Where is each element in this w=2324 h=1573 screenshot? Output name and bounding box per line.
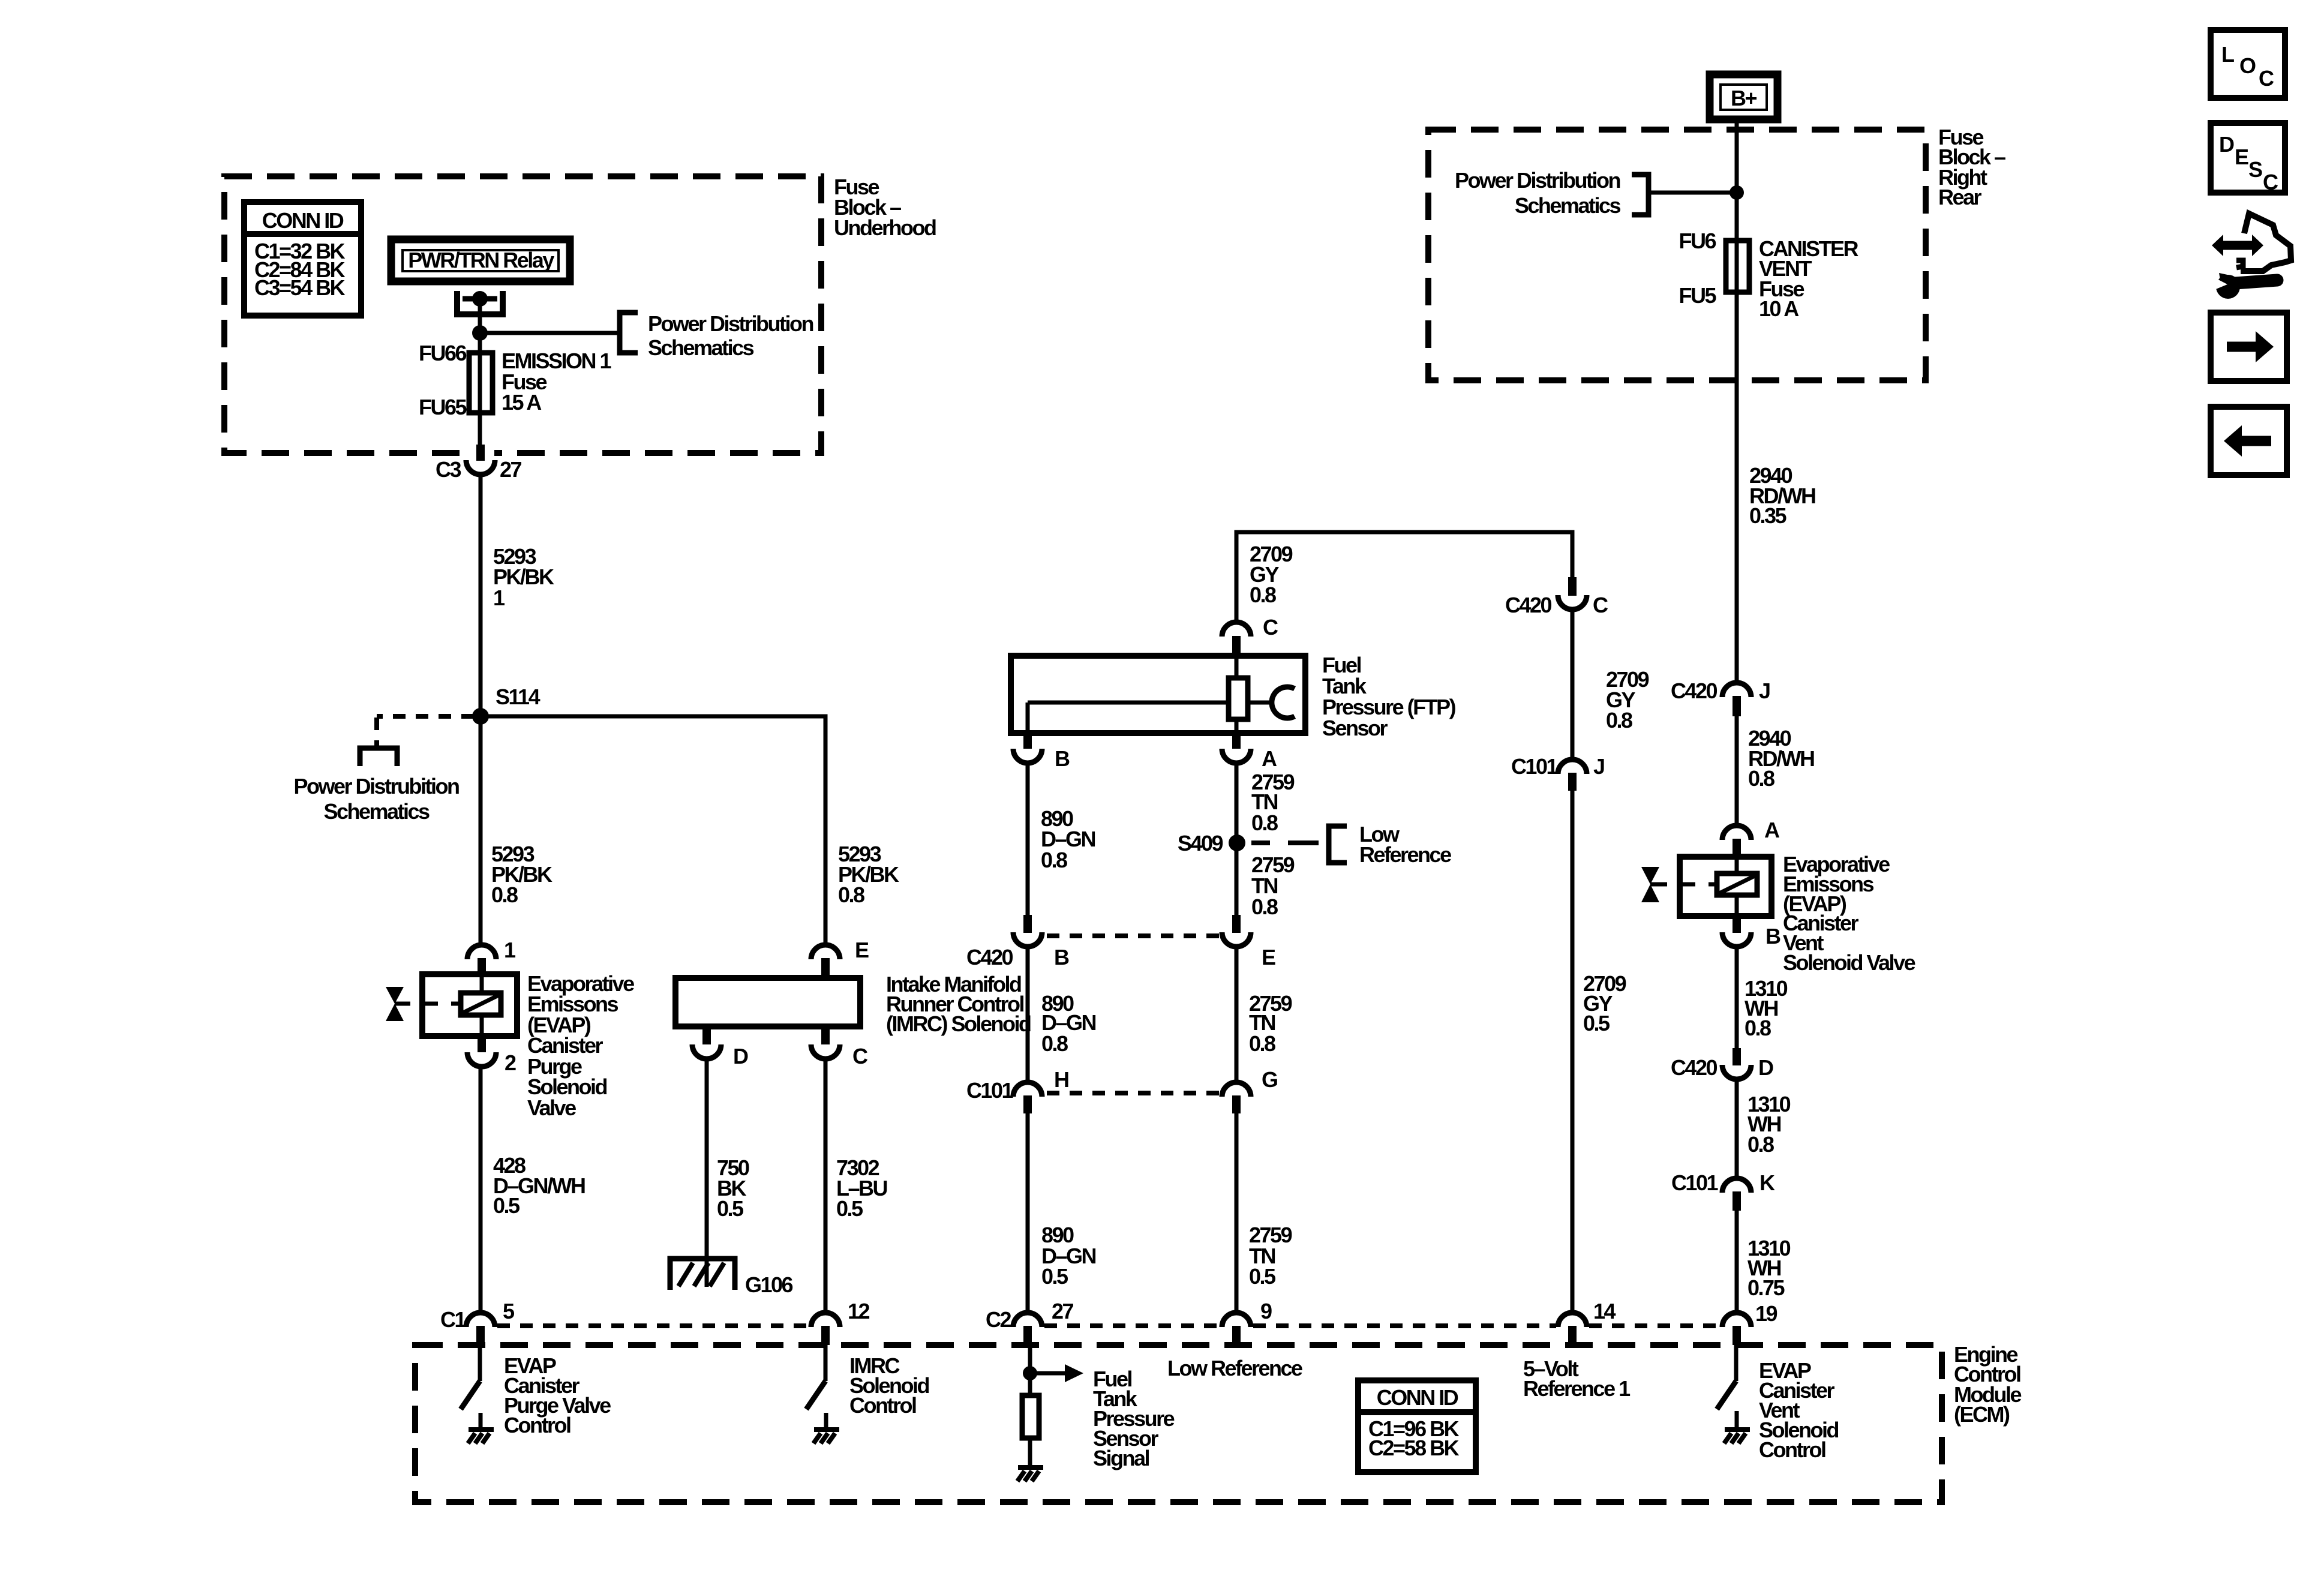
EMISSION 1 fuse label: [502, 349, 612, 415]
svg-text:Power Distrubition: Power Distrubition: [293, 774, 459, 798]
svg-text:0.5: 0.5: [1249, 1264, 1276, 1289]
ECM pin 9: [1222, 1313, 1251, 1345]
power distribution schematics label: [648, 311, 813, 360]
ECM driver switch pin 12: [806, 1345, 826, 1428]
connector C101 pin H: [1013, 1082, 1042, 1113]
connector C420 pin C: [1558, 577, 1587, 610]
top wire FTP C to C420 C: [1236, 532, 1572, 620]
IMRC solenoid control label: [849, 1353, 929, 1418]
fuse FU66/FU65 EMISSION 1 15A: [469, 353, 493, 413]
purge valve internal dashed link: [422, 1002, 461, 1006]
wire label 1310 WH 0.75: [1747, 1236, 1791, 1300]
svg-text:0.8: 0.8: [1249, 1031, 1275, 1056]
svg-text:C101: C101: [1511, 754, 1559, 779]
connector C101 pin K: [1722, 1178, 1751, 1211]
svg-text:C: C: [2259, 66, 2274, 91]
wire label 2759 TN 0.8 first: [1251, 770, 1295, 835]
wire label 2759 TN 0.5: [1249, 1223, 1292, 1289]
wire C101 K to ECM pin 19: [1735, 1209, 1739, 1311]
connector C420 pin J: [1722, 683, 1751, 716]
svg-text:C420: C420: [1671, 679, 1718, 703]
forward arrow icon box: [2211, 313, 2287, 381]
connector C3 pin 27: [466, 445, 495, 475]
wire pin C to ECM pin 12: [824, 1061, 828, 1311]
svg-text:9: 9: [1260, 1299, 1272, 1323]
wire label 890 D-GN 0.5: [1041, 1223, 1096, 1289]
svg-text:Underhood: Underhood: [834, 215, 936, 240]
connector C420 pin D: [1722, 1048, 1751, 1079]
vent valve label: [1783, 852, 1915, 975]
C2 9-14 connector dashed link: [1253, 1323, 1556, 1328]
svg-text:0.8: 0.8: [1041, 1031, 1068, 1056]
svg-text:14: 14: [1593, 1299, 1616, 1323]
wire C101 G to ECM pin 9: [1235, 1112, 1239, 1311]
svg-text:Power Distribution: Power Distribution: [1455, 168, 1620, 193]
svg-text:S114: S114: [496, 685, 541, 709]
IMRC solenoid label: [886, 972, 1031, 1036]
wire FTP A to S409: [1235, 766, 1239, 843]
dashed stub from S114 to off-page bracket: [377, 716, 474, 748]
FTP pin B connector: [1013, 733, 1042, 763]
relay contact symbol: [457, 291, 503, 314]
svg-text:C1: C1: [440, 1307, 466, 1332]
purge valve vent symbol (bowtie): [386, 987, 410, 1021]
svg-text:J: J: [1759, 679, 1770, 703]
wire label 428 D-GN/WH 0.5: [493, 1153, 585, 1218]
svg-text:(IMRC) Solenoid: (IMRC) Solenoid: [886, 1011, 1031, 1036]
off-page bracket (power distrubition): [360, 748, 397, 766]
svg-text:0.8: 0.8: [1747, 1132, 1774, 1157]
vent valve vent symbol (bowtie): [1641, 867, 1667, 902]
PWR/TRN Relay box: [391, 239, 570, 281]
svg-text:0.8: 0.8: [1606, 708, 1632, 733]
svg-text:D: D: [733, 1044, 748, 1068]
splice S409: [1229, 834, 1245, 851]
wire fuse to connector C3: [478, 413, 482, 446]
svg-text:5: 5: [503, 1299, 515, 1323]
wire C3 to S114: [479, 477, 483, 716]
fuse block underhood label: [834, 175, 936, 240]
svg-text:1: 1: [504, 938, 516, 962]
vent valve pin B connector: [1722, 916, 1751, 947]
svg-text:0.8: 0.8: [1744, 1016, 1771, 1040]
DESC icon box: [2211, 123, 2285, 194]
wire C101 H to ECM pin 27: [1026, 1112, 1030, 1311]
wire C420 C to C101 J: [1571, 610, 1575, 758]
svg-text:C: C: [1593, 593, 1608, 617]
svg-text:B: B: [1055, 746, 1070, 771]
svg-text:Power Distribution: Power Distribution: [648, 311, 813, 336]
wire label 5293 PK/BK 0.8 right: [838, 842, 899, 907]
EVAP canister purge valve control label: [504, 1353, 611, 1437]
wire label 7302 L-BU 0.5: [836, 1155, 887, 1221]
wire label 5293 PK/BK 1: [493, 544, 554, 610]
battery feed B+ box: [1710, 74, 1777, 119]
svg-text:0.8: 0.8: [491, 882, 518, 907]
wire label 2709 GY 0.8 top: [1250, 542, 1293, 607]
chassis ground (pin 19 driver): [1724, 1430, 1750, 1443]
ECM pin 19: [1722, 1313, 1751, 1345]
C101 H-G connector dashed link: [1047, 1091, 1220, 1095]
FTP sensor resistor element: [1229, 678, 1248, 719]
svg-text:0.8: 0.8: [1748, 766, 1774, 791]
wire FTP B to C420 B: [1026, 766, 1030, 917]
off-page bracket power distribution: [620, 313, 638, 353]
signal arrow pin 27: [1030, 1364, 1083, 1382]
power distrubition schematics label: [293, 774, 459, 824]
svg-text:FU6: FU6: [1679, 229, 1716, 253]
svg-text:27: 27: [500, 457, 522, 482]
wire B+ down through fuse block: [1735, 119, 1739, 241]
svg-text:CONN ID: CONN ID: [1377, 1385, 1458, 1410]
wire label 2709 GY 0.8 mid: [1606, 667, 1649, 733]
ECM connector C2 pin 27: [1013, 1313, 1042, 1345]
svg-text:0.8: 0.8: [1251, 810, 1278, 835]
svg-text:G: G: [1262, 1067, 1277, 1092]
svg-text:C: C: [2263, 170, 2278, 194]
svg-text:0.5: 0.5: [493, 1193, 520, 1218]
chassis ground (pin 27): [1017, 1467, 1043, 1481]
wire relay to junction: [478, 299, 482, 333]
chassis ground (pin 5 driver): [468, 1430, 494, 1443]
wire purge valve to ECM pin 5: [479, 1069, 483, 1311]
off-page bracket low reference: [1329, 826, 1347, 863]
svg-text:S409: S409: [1178, 831, 1223, 855]
connector C420 pin B: [1013, 915, 1042, 947]
connector C101 pin G: [1222, 1082, 1251, 1113]
wire label 890 D-GN 0.8 first: [1041, 806, 1095, 872]
connector ID table (fuse block): [244, 202, 361, 316]
connector C420 pin E: [1222, 915, 1251, 947]
FTP sensor diaphragm arc: [1272, 687, 1295, 718]
EVAP canister purge solenoid valve: [422, 974, 517, 1036]
svg-text:FU5: FU5: [1679, 283, 1716, 308]
svg-text:C: C: [852, 1044, 868, 1068]
vehicle service icon: [2210, 214, 2291, 299]
svg-text:Valve: Valve: [527, 1095, 576, 1120]
dashed stub S409 to bracket: [1251, 840, 1319, 845]
svg-text:0.8: 0.8: [838, 882, 864, 907]
ECM driver switch pin 5: [461, 1345, 481, 1428]
svg-text:0.8: 0.8: [1250, 583, 1276, 607]
wire S114 down to purge valve pin 1: [479, 716, 483, 945]
svg-text:C420: C420: [1505, 593, 1552, 617]
svg-text:J: J: [1593, 754, 1604, 779]
svg-text:Schematics: Schematics: [323, 799, 430, 824]
ECM connector C1 pin 5: [466, 1313, 495, 1345]
svg-text:C101: C101: [1671, 1170, 1719, 1195]
fuse block right rear label: [1938, 125, 2005, 209]
svg-text:CONN ID: CONN ID: [262, 208, 344, 233]
wire junction to fuse FU66: [478, 333, 482, 355]
svg-text:E: E: [1262, 945, 1275, 969]
connector ID table (ECM): [1358, 1380, 1476, 1472]
svg-text:Reference: Reference: [1359, 842, 1451, 867]
svg-text:Control: Control: [504, 1413, 571, 1437]
svg-text:15 A: 15 A: [502, 390, 542, 415]
svg-text:C420: C420: [1671, 1055, 1718, 1080]
svg-text:D: D: [1758, 1055, 1773, 1080]
purge valve coil: [461, 993, 501, 1015]
fuel tank pressure sensor box: [1011, 656, 1305, 733]
svg-text:0.5: 0.5: [1583, 1011, 1610, 1035]
wire label 5293 PK/BK 0.8 left: [491, 842, 553, 907]
svg-text:A: A: [1764, 818, 1780, 842]
wire fuse block to C420 J: [1735, 380, 1739, 684]
wire label 890 D-GN 0.8 second: [1041, 991, 1096, 1056]
svg-text:0.75: 0.75: [1747, 1275, 1785, 1300]
svg-text:C2=58 BK: C2=58 BK: [1368, 1436, 1460, 1460]
svg-text:Sensor: Sensor: [1322, 716, 1388, 740]
svg-text:1: 1: [493, 586, 505, 610]
connector C101 pin J: [1558, 760, 1587, 791]
wire junction to power distribution bracket: [480, 331, 620, 335]
svg-text:C2: C2: [986, 1307, 1011, 1332]
ECM dashed box: [415, 1345, 1942, 1502]
wire label 2940 RD/WH 0.8: [1748, 726, 1814, 791]
IMRC solenoid pin E connector: [811, 945, 840, 980]
vent valve internal dashed link: [1680, 882, 1717, 887]
junction node pin 27: [1023, 1366, 1037, 1380]
fuse block underhood dashed box: [224, 176, 821, 453]
C2 27-9 connector dashed link: [1044, 1323, 1220, 1328]
ECM pin 27 internal wire: [1028, 1345, 1032, 1395]
ECM pin 14: [1558, 1313, 1587, 1345]
wire vent valve B to C420 D: [1735, 947, 1739, 1050]
svg-text:C420: C420: [966, 945, 1013, 969]
svg-text:0.8: 0.8: [1041, 848, 1067, 872]
vent valve coil: [1717, 873, 1757, 895]
wire bracket to junction: [1649, 191, 1737, 195]
svg-text:27: 27: [1052, 1299, 1074, 1323]
splice S114: [472, 708, 489, 725]
svg-text:O: O: [2239, 53, 2256, 78]
svg-text:E: E: [2235, 145, 2248, 169]
engine control module label: [1954, 1342, 2021, 1427]
wire label 1310 WH 0.8 first: [1744, 976, 1788, 1040]
IMRC pin C connector: [811, 1026, 840, 1059]
svg-text:Control: Control: [849, 1393, 916, 1418]
junction node: [1730, 185, 1744, 200]
wire pin D to ground G106: [705, 1061, 709, 1287]
ground G106: [670, 1259, 735, 1290]
wire label 750 BK 0.5: [717, 1155, 749, 1221]
fuse FU6/FU5 CANISTER VENT 10A: [1726, 241, 1749, 380]
FTP sensor pin C connector: [1222, 622, 1251, 657]
wire C420 D to C101 K: [1735, 1079, 1739, 1178]
svg-text:Signal: Signal: [1093, 1446, 1149, 1470]
canister vent fuse label: [1759, 236, 1859, 321]
svg-text:D: D: [2219, 132, 2234, 157]
wire label 1310 WH 0.8 second: [1747, 1092, 1791, 1157]
svg-text:K: K: [1759, 1170, 1775, 1195]
purge valve label: [527, 971, 634, 1120]
svg-text:H: H: [1054, 1067, 1068, 1092]
chassis ground (pin 12 driver): [813, 1430, 839, 1443]
FTP pin A connector: [1222, 733, 1251, 763]
wire S409 to C420 E: [1235, 843, 1239, 917]
low reference label: [1359, 822, 1451, 867]
svg-text:B: B: [1054, 945, 1069, 969]
svg-text:0.35: 0.35: [1749, 503, 1787, 528]
wire C101 J to ECM pin 14: [1571, 789, 1575, 1311]
C420 B-E connector dashed link: [1047, 933, 1220, 938]
svg-text:12: 12: [848, 1299, 870, 1323]
svg-text:C3=54 BK: C3=54 BK: [254, 275, 346, 300]
svg-text:Schematics: Schematics: [648, 335, 754, 360]
wire label 2709 GY 0.5: [1583, 971, 1626, 1035]
svg-text:0.5: 0.5: [836, 1196, 863, 1221]
svg-text:B: B: [1765, 924, 1780, 948]
wire label 2940 RD/WH 0.35: [1749, 463, 1815, 528]
fuse block right rear dashed box: [1428, 130, 1926, 380]
svg-text:G106: G106: [745, 1272, 793, 1297]
svg-text:A: A: [1262, 746, 1277, 771]
svg-text:S: S: [2248, 157, 2262, 182]
C2 14-19 connector dashed link: [1589, 1323, 1721, 1328]
svg-text:C101: C101: [966, 1078, 1014, 1103]
svg-text:Solenoid Valve: Solenoid Valve: [1783, 950, 1915, 975]
vent valve pin A connector: [1722, 825, 1751, 859]
svg-text:L: L: [2221, 42, 2234, 67]
purge valve pin 2 connector: [467, 1036, 496, 1067]
svg-text:FU66: FU66: [419, 341, 467, 365]
EVAP canister vent solenoid control label: [1759, 1358, 1839, 1462]
wire C420 B to C101 H: [1026, 947, 1030, 1081]
wire C420 J to vent valve pin A: [1735, 715, 1739, 825]
purge valve pin 1 connector: [467, 945, 496, 977]
wire label 2759 TN 0.8 second: [1251, 852, 1295, 919]
5-volt reference 1 label: [1523, 1356, 1631, 1401]
wire C420 E to C101 G: [1235, 947, 1239, 1081]
ECM pin 12: [811, 1313, 840, 1345]
power distribution schematics label (right): [1455, 168, 1620, 218]
C1 5-12 connector dashed link: [497, 1323, 809, 1328]
ECM internal resistor (FTP pull): [1022, 1395, 1039, 1466]
junction node: [472, 325, 488, 341]
svg-text:10 A: 10 A: [1759, 296, 1799, 321]
svg-text:(ECM): (ECM): [1954, 1402, 2010, 1427]
svg-text:0.5: 0.5: [1041, 1264, 1068, 1289]
svg-text:B+: B+: [1731, 86, 1756, 110]
svg-text:PWR/TRN Relay: PWR/TRN Relay: [408, 248, 554, 272]
IMRC solenoid box: [675, 978, 860, 1026]
ECM driver switch pin 19: [1717, 1345, 1737, 1428]
svg-text:Schematics: Schematics: [1515, 193, 1621, 218]
LOC icon box: [2211, 30, 2285, 98]
svg-text:19: 19: [1755, 1301, 1777, 1326]
svg-text:Rear: Rear: [1938, 185, 1982, 209]
wire S114 branch to IMRC column: [481, 716, 825, 945]
svg-text:C: C: [1263, 615, 1278, 640]
svg-text:FU65: FU65: [419, 395, 467, 419]
svg-text:0.8: 0.8: [1251, 894, 1278, 919]
svg-text:Reference 1: Reference 1: [1523, 1376, 1631, 1401]
svg-text:0.5: 0.5: [717, 1196, 744, 1221]
svg-text:C3: C3: [436, 457, 461, 482]
wire label 2759 TN 0.8 third: [1249, 991, 1292, 1056]
svg-text:2: 2: [505, 1050, 516, 1075]
FTP sensor label: [1322, 653, 1456, 740]
svg-text:Control: Control: [1759, 1437, 1825, 1462]
EVAP canister vent solenoid valve: [1680, 857, 1771, 916]
svg-text:E: E: [855, 938, 869, 962]
back arrow icon box: [2211, 407, 2287, 475]
off-page bracket power distribution (right): [1632, 175, 1649, 215]
fuel tank pressure sensor signal label: [1093, 1367, 1175, 1470]
svg-text:Low Reference: Low Reference: [1167, 1356, 1302, 1380]
IMRC pin D connector: [692, 1026, 721, 1059]
